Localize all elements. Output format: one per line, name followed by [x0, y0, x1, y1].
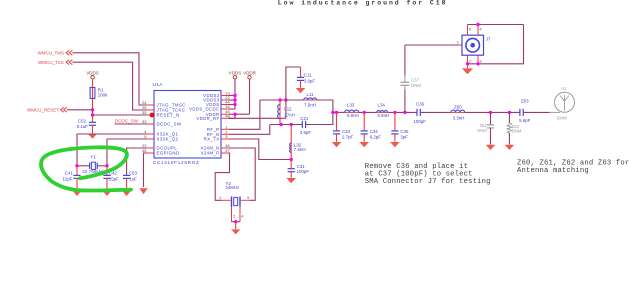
pin 5 X32K_Q2 (left): [147, 138, 154, 140]
wire row2 right to RF line: [306, 112, 333, 124]
wire RF line segment 5: [465, 111, 520, 113]
ground below Z62: [505, 145, 515, 150]
wire row1 right to RF line: [317, 100, 333, 112]
svg-text:WMCU_TCK: WMCU_TCK: [38, 60, 64, 65]
pin 3 RX_TX (right): [221, 138, 229, 140]
svg-text:27nH: 27nH: [284, 112, 295, 117]
ground below C42: [103, 191, 112, 196]
no-connect dot RESET_N pin: [150, 113, 155, 118]
capacitor C52 0.1uF: [92, 115, 94, 122]
wire DCOUPL to C53: [127, 148, 147, 175]
capacitor C36 100pF: [416, 109, 418, 116]
svg-text:DNM: DNM: [477, 128, 487, 133]
node VDDR junction: [233, 113, 236, 116]
pin 35 RESET_N (left): [147, 114, 154, 116]
svg-text:6.8nH: 6.8nH: [347, 113, 359, 118]
svg-text:33: 33: [142, 119, 147, 124]
wire RX_TX to L32/C31 node: [229, 139, 291, 160]
pin 4 X32K_Q1 (left): [147, 133, 154, 135]
svg-text:12pF: 12pF: [62, 177, 72, 182]
pin 5 J7: [467, 25, 469, 36]
svg-text:C33: C33: [342, 129, 351, 134]
svg-text:7.5nH: 7.5nH: [304, 103, 316, 108]
inductor L12 27nH: [279, 100, 281, 105]
node Y1 left: [75, 164, 78, 167]
wire X32K_Q1 to Y1: [77, 134, 147, 166]
wire VDDR_RF branch from pin 45 rail: [234, 114, 236, 118]
svg-text:3.3nH: 3.3nH: [453, 116, 465, 121]
node Z61 tap: [489, 111, 492, 114]
node VDDR_RF/C11 riser on row1: [284, 98, 287, 101]
svg-text:C53: C53: [129, 171, 138, 176]
svg-text:Z63: Z63: [521, 99, 529, 104]
ground EGP: [139, 188, 147, 194]
wire X32K_Q2 to Y1: [107, 139, 147, 166]
svg-text:C34: C34: [370, 129, 379, 134]
wire X24M_P to Y2 pin 1: [215, 153, 229, 200]
pin 1 RF_P (right): [221, 128, 229, 130]
node Y1 right: [105, 164, 108, 167]
capacitor C34 6.2pF: [363, 112, 365, 130]
svg-text:WMCU_RESET: WMCU_RESET: [27, 107, 59, 112]
pin 13 VDDS2 (right): [221, 95, 229, 97]
svg-text:1uF: 1uF: [129, 177, 137, 182]
ground below C53: [122, 191, 131, 196]
node L12 bottom: [279, 123, 282, 126]
wire RF line segment 6: [523, 111, 550, 113]
wire VDDR rail: [249, 79, 251, 114]
svg-text:7.5nH: 7.5nH: [294, 147, 306, 152]
node C37 tap: [403, 111, 406, 114]
capacitor C37 DNM: [404, 76, 406, 83]
svg-text:24MHz: 24MHz: [226, 185, 240, 190]
svg-text:DNM: DNM: [512, 128, 522, 133]
svg-text:U1A: U1A: [153, 82, 164, 87]
svg-text:CC1310F128RGZ: CC1310F128RGZ: [153, 160, 200, 165]
wire RF line segment 3: [388, 111, 417, 113]
wire RF_P to row1: [229, 100, 260, 129]
pin 47 X24M_P (right): [221, 152, 229, 154]
wire RF line segment 4: [420, 111, 451, 113]
inductor L32 7.5nH: [290, 125, 292, 144]
resistor Z61 DNM: [490, 112, 492, 125]
node C33 tap: [335, 111, 338, 114]
green highlight loop around Y1: [41, 147, 131, 190]
capacitor C21 3.6pF: [301, 121, 303, 128]
wire Y1 row left: [77, 165, 89, 167]
svg-text:6.8nH: 6.8nH: [378, 113, 390, 118]
wire reset to RESET_N pin: [93, 114, 148, 116]
pin 2 J7: [467, 55, 469, 68]
node C34 tap: [363, 111, 366, 114]
wire RF line segment 2: [359, 111, 377, 113]
svg-text:L34: L34: [378, 103, 386, 108]
svg-text:Y1: Y1: [90, 155, 96, 160]
wire VDDS rail: [234, 79, 236, 109]
antenna A1 DNM: [550, 111, 560, 113]
capacitor C53 1uF: [123, 174, 130, 176]
svg-text:Low inductance ground for C18: Low inductance ground for C18: [278, 0, 448, 7]
svg-text:DCDC_SW: DCDC_SW: [115, 119, 139, 124]
svg-text:J7: J7: [486, 36, 491, 41]
pin 2 Y2: [231, 207, 233, 222]
wire EGP/GND to ground: [144, 153, 148, 187]
svg-text:C35: C35: [400, 129, 409, 134]
pin 33 DCDC_SW (left): [147, 123, 154, 125]
svg-text:RX_TX: RX_TX: [204, 137, 220, 142]
ground below Z61: [486, 145, 496, 150]
svg-text:100k: 100k: [98, 93, 108, 98]
node L32 top: [290, 123, 293, 126]
wire Y1 row right: [98, 165, 107, 167]
capacitor C33 2.7pF: [336, 112, 338, 130]
pin 24 JTAG_TMSC (left): [147, 104, 154, 106]
svg-text:100pF: 100pF: [413, 119, 426, 124]
svg-text:RESET_N: RESET_N: [157, 113, 180, 118]
wire C37 riser: [404, 45, 406, 76]
node C35 tap: [393, 111, 396, 114]
svg-text:47: 47: [225, 148, 230, 153]
svg-text:100pF: 100pF: [297, 169, 310, 174]
ground below C33: [332, 142, 342, 147]
svg-text:WMCU_TMS: WMCU_TMS: [38, 50, 65, 55]
pin 45 VDDR (right): [221, 113, 229, 115]
ground below C11: [296, 88, 306, 93]
pin 3 J7: [477, 55, 479, 64]
inductor L11 7.5nH: [304, 99, 317, 101]
wire reset down jog: [92, 110, 94, 115]
capacitor C42 15pF: [106, 166, 108, 176]
wire RF line segment 1: [333, 111, 345, 113]
ground below C41: [73, 191, 82, 196]
pin 23 DCOUPL (left): [147, 147, 154, 149]
wire RF_N to row2: [229, 125, 270, 135]
wire WMCU_TCK to JTAG_TCKC: [72, 62, 147, 110]
node J7 pin 3 junction: [476, 62, 479, 65]
capacitor Z63 5.6pF: [519, 109, 521, 116]
resistor R1 100k: [92, 88, 94, 99]
svg-text:A1: A1: [561, 86, 567, 91]
svg-text:C36: C36: [416, 102, 425, 107]
wire X24M_N to Y2 pin 3: [229, 148, 255, 200]
wire WMCU_RESET: [67, 109, 93, 111]
inductor L34 6.8nH: [377, 111, 388, 113]
capacitor C35 3pF: [394, 112, 396, 130]
node RF line start: [331, 111, 334, 114]
node L12 top: [278, 98, 281, 101]
svg-text:L33: L33: [347, 103, 355, 108]
capacitor C31 100pF: [290, 160, 292, 169]
node L32/C31/RX_TX: [290, 158, 293, 161]
svg-text:DNM: DNM: [557, 116, 567, 121]
op IC U1A CC1310F128RGZ body: [154, 91, 221, 159]
pin 2 RF_N (right): [221, 133, 229, 135]
svg-text:C41: C41: [65, 171, 74, 176]
node junction R1/reset: [91, 108, 94, 111]
svg-text:X32K_Q2: X32K_Q2: [157, 137, 179, 142]
svg-text:0.1uF: 0.1uF: [77, 124, 89, 129]
svg-text:VDDR_RF: VDDR_RF: [196, 116, 219, 121]
wire VDDR_RF to C11 riser: [229, 117, 286, 119]
wire J7 pin1 feed: [405, 44, 458, 46]
pin 3 Y2: [241, 199, 250, 201]
wire DCDC_SW to pin 33: [115, 123, 148, 125]
pin 25 JTAG_TCKC (left): [147, 109, 154, 111]
svg-text:EGP/GND: EGP/GND: [157, 151, 180, 156]
svg-text:C21: C21: [300, 116, 309, 121]
capacitor C11 3.6pF: [300, 67, 302, 77]
wire row2 left: [270, 124, 302, 126]
wire VDDS to R1: [92, 79, 94, 88]
svg-text:15pF: 15pF: [109, 177, 119, 182]
svg-text:C37: C37: [411, 77, 420, 82]
ground below C31: [286, 178, 296, 183]
svg-text:L11: L11: [307, 92, 315, 97]
pin 22 VDDS3 (right): [221, 99, 229, 101]
node J7 pin 2 junction: [466, 62, 469, 65]
wire C37 to RF line: [404, 90, 406, 113]
ground below C34: [359, 142, 369, 147]
inductor Z60 3.3nH: [451, 111, 465, 113]
svg-text:X24M_P: X24M_P: [201, 151, 220, 156]
svg-text:3.6pF: 3.6pF: [300, 130, 312, 135]
svg-text:2.7pF: 2.7pF: [342, 135, 354, 140]
pin 34 VDDS_DCDC (right): [221, 108, 229, 110]
svg-text:35: 35: [142, 110, 147, 115]
resistor Z62 DNM: [508, 112, 510, 123]
svg-text:3.6pF: 3.6pF: [304, 79, 316, 84]
wire row1 left: [260, 99, 304, 101]
crystal Y1: [89, 163, 91, 169]
svg-text:SMA Connector J7 for testing: SMA Connector J7 for testing: [365, 178, 491, 186]
ground below C52: [88, 134, 98, 139]
svg-text:5.6pF: 5.6pF: [519, 118, 531, 123]
wire C11 riser up: [286, 67, 301, 100]
ground below Y2: [231, 229, 240, 234]
wire J7 shield loop top: [468, 24, 524, 26]
crystal Y2 24MHz body: [231, 196, 233, 207]
node VDDS rail junctions: [233, 94, 236, 97]
svg-text:VDDS: VDDS: [86, 70, 99, 75]
wire Y2 ground join: [232, 221, 241, 223]
node junction C52/reset: [91, 113, 94, 116]
wire J7 shield loop right/bottom: [468, 25, 524, 64]
svg-text:VDDR: VDDR: [243, 70, 257, 75]
node Z62 tap: [508, 111, 511, 114]
pin 48 VDDR_RF (right): [221, 117, 229, 119]
svg-text:6.2pF: 6.2pF: [370, 135, 382, 140]
ground below C35: [390, 142, 400, 147]
node Y2 ground junction: [234, 220, 237, 223]
svg-text:3pF: 3pF: [400, 135, 408, 140]
svg-text:DNM: DNM: [411, 83, 421, 88]
pin 46 X24M_N (right): [221, 147, 229, 149]
svg-text:Z60: Z60: [454, 104, 462, 109]
wire WMCU_TMS to JTAG_TMSC: [72, 53, 147, 105]
svg-text:DCDC_SW: DCDC_SW: [157, 122, 182, 127]
node J7 pin 4 junction: [476, 23, 479, 26]
connector J7 SMA: [458, 44, 462, 46]
pin 4 Y2: [239, 207, 241, 222]
pin 44 VDDS (right): [221, 104, 229, 106]
svg-text:VDDS: VDDS: [229, 70, 242, 75]
svg-text:L12: L12: [284, 106, 292, 111]
pin 4 J7: [477, 25, 479, 36]
svg-text:C11: C11: [304, 73, 312, 78]
inductor L33 6.8nH: [345, 111, 359, 113]
pin 45 EGP/GND (left): [147, 152, 154, 154]
ground below J7 pin 2: [462, 68, 473, 74]
pin 1 Y2: [222, 199, 231, 201]
capacitor C41 12pF: [76, 166, 78, 176]
svg-text:Antenna matching: Antenna matching: [517, 167, 589, 175]
